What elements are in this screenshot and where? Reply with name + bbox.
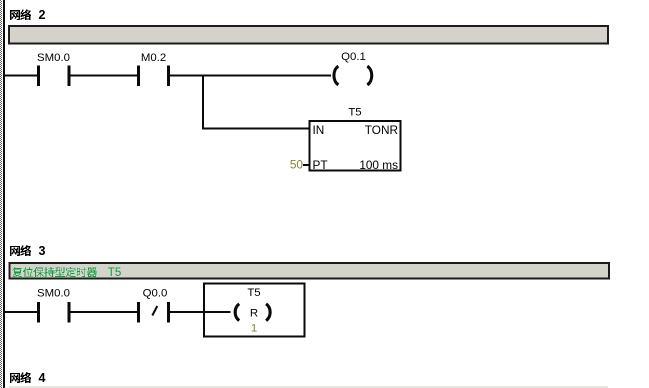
contact SM0.0 (net3) <box>37 302 71 322</box>
wire branch to timer IN <box>202 128 309 130</box>
network 4 title 网络 4 <box>10 371 45 385</box>
svg-text:100 ms: 100 ms <box>359 158 398 172</box>
wire SM0.0 to M0.2 <box>71 75 138 77</box>
window edge dither strip <box>0 0 2 388</box>
coil Q0.1 <box>334 66 372 85</box>
comment text 复位保持型定时器 <box>12 267 97 277</box>
network 3 comment bar <box>10 263 610 279</box>
network 3 title 网络 3 <box>10 244 45 258</box>
wire into selection box <box>204 311 231 313</box>
svg-text:2: 2 <box>39 8 46 22</box>
svg-text:TONR: TONR <box>365 123 398 137</box>
wire M0.2 to coil Q0.1 <box>170 75 331 77</box>
svg-text:T5: T5 <box>108 267 121 279</box>
svg-text:SM0.0: SM0.0 <box>37 288 70 300</box>
svg-text:Q0.0: Q0.0 <box>143 288 168 300</box>
next comment bar top sliver <box>9 386 608 388</box>
svg-text:T5: T5 <box>247 287 260 299</box>
svg-text:SM0.0: SM0.0 <box>37 52 70 64</box>
left power rail <box>3 0 5 388</box>
svg-text:PT: PT <box>313 158 328 172</box>
timer box T5 TONR <box>310 121 401 171</box>
svg-text:50: 50 <box>290 158 304 172</box>
network 2 comment bar <box>9 26 608 44</box>
wire Q0.0 to reset coil <box>170 311 231 313</box>
svg-text:R: R <box>250 308 258 320</box>
svg-text:Q0.1: Q0.1 <box>341 51 366 63</box>
svg-text:4: 4 <box>39 371 46 385</box>
reset coil (R) <box>235 304 270 321</box>
svg-text:IN: IN <box>313 123 325 137</box>
svg-text:3: 3 <box>39 244 46 258</box>
svg-text:1: 1 <box>251 323 257 335</box>
contact SM0.0 <box>37 65 71 85</box>
wire PT pin tick <box>303 164 310 166</box>
wire rail to SM0.0 (net3) <box>4 311 38 313</box>
wire SM0.0 to Q0.0 <box>71 311 138 313</box>
contact Q0.0 normally closed <box>137 302 170 322</box>
svg-text:T5: T5 <box>348 107 361 119</box>
network 2 title 网络 2 <box>10 8 45 22</box>
contact M0.2 <box>137 65 170 85</box>
svg-text:M0.2: M0.2 <box>141 52 166 64</box>
wire branch vertical <box>202 75 204 129</box>
wire rail to SM0.0 (net2) <box>4 75 38 77</box>
selection box around reset coil <box>204 284 305 337</box>
